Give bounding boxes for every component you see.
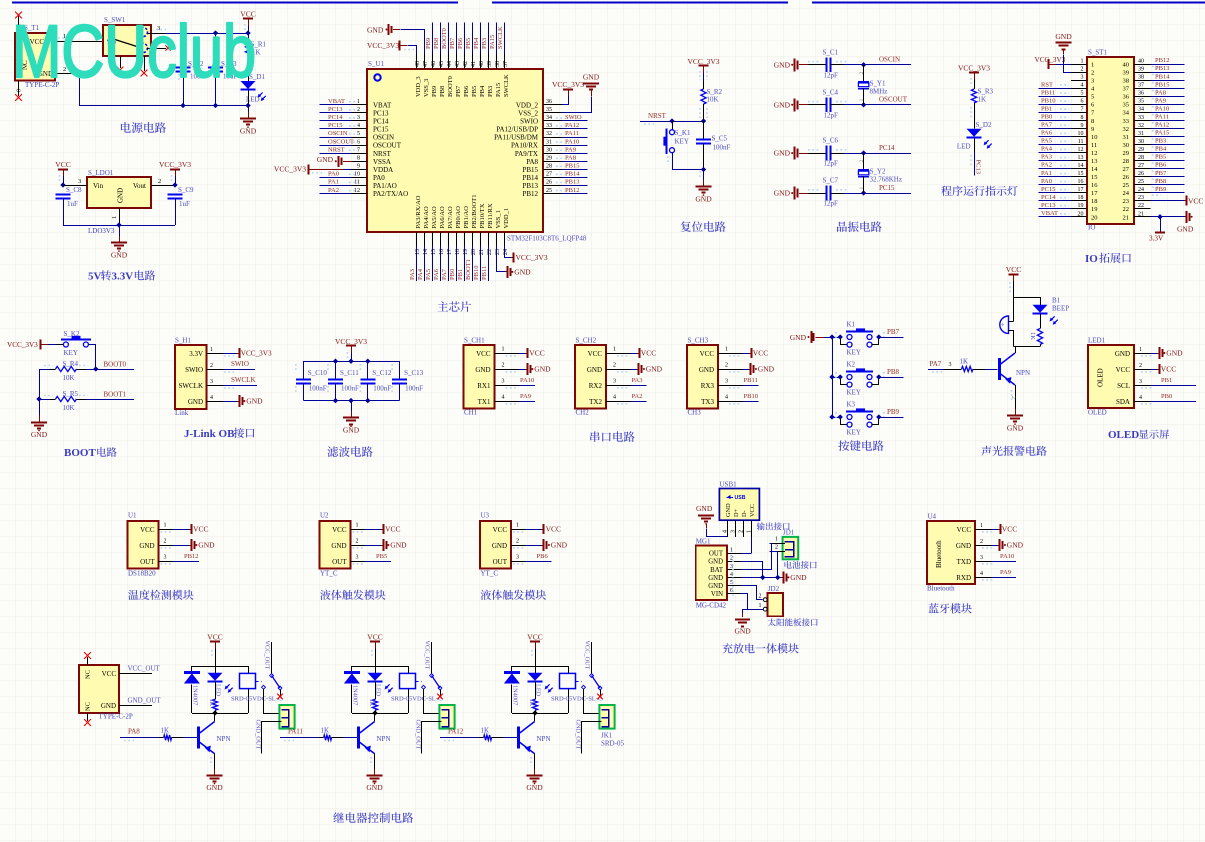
svg-text:3: 3 <box>357 115 360 121</box>
svg-text:PB11: PB11 <box>481 266 488 280</box>
svg-text:6: 6 <box>1081 99 1084 105</box>
svg-text:36: 36 <box>546 99 552 105</box>
svg-text:2: 2 <box>859 160 865 163</box>
MCU top pin 37 SWCLK <box>497 23 510 98</box>
resistor 1K relay3 <box>528 682 538 713</box>
ST1 left pin 18 net PC14 <box>1039 194 1098 205</box>
svg-text:13: 13 <box>1091 158 1098 165</box>
ground GND power circuit <box>240 106 257 136</box>
svg-text:GND: GND <box>699 366 714 374</box>
svg-text:PC14: PC14 <box>879 144 895 152</box>
MCU right pin 25 PB12 <box>522 187 587 198</box>
svg-text:SWCLK: SWCLK <box>231 376 256 384</box>
svg-text:1: 1 <box>859 187 865 190</box>
svg-text:VSS_2: VSS_2 <box>518 109 538 117</box>
MCU top pin 46 PB9 <box>425 23 438 98</box>
svg-text:3: 3 <box>613 379 616 385</box>
svg-text:100nF: 100nF <box>341 385 359 393</box>
relay switch relay1 <box>256 674 283 700</box>
capacitor S_C4 12pF <box>808 88 847 119</box>
filter bottom rail wire <box>303 398 399 403</box>
power port VCC U2 <box>365 524 401 534</box>
svg-text:3: 3 <box>516 555 519 561</box>
svg-text:12pF: 12pF <box>824 160 839 168</box>
svg-text:PC15: PC15 <box>328 122 342 129</box>
svg-text:VSS_3: VSS_3 <box>423 79 430 97</box>
svg-text:11: 11 <box>354 180 360 186</box>
svg-text:34: 34 <box>1138 107 1144 113</box>
svg-text:OUT: OUT <box>493 558 508 566</box>
svg-text:VCC: VCC <box>385 525 400 534</box>
ST1 right pin 38 net PB14 <box>1123 73 1185 84</box>
svg-text:PB12: PB12 <box>522 190 538 198</box>
svg-text:PA0: PA0 <box>328 171 339 178</box>
svg-text:1N4007: 1N4007 <box>191 685 198 705</box>
svg-text:GND: GND <box>514 268 531 277</box>
svg-text:PB7: PB7 <box>455 85 462 97</box>
svg-text:36: 36 <box>1138 91 1144 97</box>
header S_CH3 serial <box>687 337 743 417</box>
power port VCC_3V3 for LDO out <box>159 160 191 187</box>
capacitor S_C7 12pF <box>808 177 847 208</box>
MCU left pin 9 VDDA <box>352 164 394 174</box>
svg-text:VSSA: VSSA <box>373 158 391 166</box>
svg-text:1: 1 <box>747 530 753 533</box>
svg-text:PA2: PA2 <box>632 393 643 400</box>
ground GND at ST1 pin 21 <box>1151 211 1194 234</box>
svg-text:32: 32 <box>546 131 552 137</box>
svg-text:PB5: PB5 <box>465 38 472 49</box>
svg-text:GND: GND <box>790 573 807 582</box>
svg-text:PA1/AO: PA1/AO <box>373 182 397 190</box>
svg-text:VDD_1: VDD_1 <box>503 208 510 229</box>
svg-text:KEY: KEY <box>847 389 861 397</box>
svg-text:43: 43 <box>455 61 461 67</box>
ST1 left pin 13 net PA3 <box>1039 154 1098 165</box>
net label GND_OUT wire relay2 <box>414 720 441 754</box>
svg-text:1uF: 1uF <box>67 200 78 208</box>
svg-text:PA7: PA7 <box>1041 122 1053 129</box>
MCU right pin 33 PA12/USB/DP <box>496 122 587 133</box>
power port VCC_3V3 reset <box>687 57 719 81</box>
svg-text:PB4: PB4 <box>1155 146 1167 153</box>
svg-text:3: 3 <box>78 178 81 185</box>
net label PC15 <box>844 184 911 196</box>
svg-text:GND: GND <box>139 542 154 550</box>
net label PA8 wire and base resistor relay1 <box>120 727 197 741</box>
svg-text:23: 23 <box>1123 198 1130 205</box>
svg-text:1: 1 <box>164 523 167 529</box>
relay bottom rail wire relay2 <box>352 710 408 715</box>
svg-text:GND: GND <box>1055 32 1072 41</box>
svg-text:MG-CD42: MG-CD42 <box>696 602 727 610</box>
svg-text:S_C10: S_C10 <box>308 369 328 377</box>
svg-text:21: 21 <box>1123 214 1130 221</box>
ground GND S_CH2 <box>631 363 663 375</box>
svg-text:PB13: PB13 <box>1155 65 1169 72</box>
svg-text:PA11: PA11 <box>288 728 304 736</box>
svg-text:NRST: NRST <box>328 146 345 153</box>
svg-text:3.3V: 3.3V <box>189 350 203 358</box>
svg-text:GND: GND <box>774 149 791 158</box>
svg-text:KEY: KEY <box>675 138 689 146</box>
MCU left pin 5 OSCIN <box>320 130 395 141</box>
net label PB9 wire <box>879 408 904 418</box>
ST1 right pin 30 net PB3 <box>1123 138 1185 149</box>
svg-text:GND: GND <box>774 100 791 109</box>
svg-text:3: 3 <box>731 530 737 533</box>
svg-text:1: 1 <box>1139 347 1142 353</box>
wire LDO pin3 <box>63 185 87 187</box>
title run indicator <box>941 186 1017 196</box>
LED of alarm <box>1033 297 1058 325</box>
svg-text:PA12: PA12 <box>565 122 579 129</box>
svg-text:VIN: VIN <box>711 591 723 598</box>
ST1 right pin 32 net PA12 <box>1123 122 1185 133</box>
svg-text:IO: IO <box>1085 253 1098 265</box>
title bluetooth module <box>928 603 971 613</box>
svg-text:PB6: PB6 <box>1155 162 1167 169</box>
MCU top pin 48 VDD_3 <box>415 54 422 98</box>
svg-text:S_C8: S_C8 <box>66 186 82 194</box>
svg-text:27: 27 <box>546 172 552 178</box>
title IO expansion <box>1085 253 1131 265</box>
svg-text:20: 20 <box>1078 211 1084 217</box>
svg-text:17: 17 <box>1078 187 1084 193</box>
svg-text:6: 6 <box>357 139 360 145</box>
power port VCC S_CH1 <box>519 348 545 358</box>
svg-text:PB0: PB0 <box>1041 114 1052 121</box>
MCU right pin 30 PA9/TX <box>515 146 588 157</box>
capacitor S_C9 1uF <box>168 186 195 225</box>
svg-text:1: 1 <box>859 98 865 101</box>
svg-text:37: 37 <box>503 61 509 67</box>
svg-text:PB5: PB5 <box>1155 154 1166 161</box>
svg-text:GND: GND <box>774 60 791 69</box>
svg-text:S_C7: S_C7 <box>823 177 839 185</box>
LED S_D1 <box>241 73 266 106</box>
net label OSCOUT <box>844 96 911 108</box>
relay top rail wire relay2 <box>352 666 408 668</box>
svg-text:PA0: PA0 <box>1041 178 1052 185</box>
svg-text:GND: GND <box>734 627 751 636</box>
svg-text:3.3V: 3.3V <box>112 271 134 283</box>
title filter circuit <box>327 446 372 457</box>
svg-text:GND: GND <box>646 365 663 374</box>
connector USB1 USB-A <box>719 481 759 537</box>
svg-text:2: 2 <box>516 539 519 545</box>
svg-text:SWCLK: SWCLK <box>497 26 504 49</box>
svg-text:SCL: SCL <box>1117 382 1130 390</box>
MCU bottom pin 15 PA5/AO <box>425 206 438 281</box>
svg-text:PC13: PC13 <box>328 106 342 113</box>
svg-text:GND: GND <box>1166 349 1183 358</box>
svg-text:31: 31 <box>1123 134 1130 141</box>
connector JK screw terminal relay2 <box>439 705 454 729</box>
svg-text:PA3: PA3 <box>409 269 416 280</box>
svg-text:PA10: PA10 <box>520 377 534 384</box>
title charge module <box>722 643 798 653</box>
svg-text:12pF: 12pF <box>824 71 839 79</box>
svg-text:2: 2 <box>210 363 213 369</box>
svg-text:2: 2 <box>725 363 728 369</box>
svg-text:PA6: PA6 <box>433 268 440 280</box>
svg-text:1: 1 <box>356 523 359 529</box>
svg-text:33: 33 <box>1123 118 1130 125</box>
svg-text:GND: GND <box>116 188 124 203</box>
svg-text:3: 3 <box>1081 75 1084 81</box>
svg-text:CH1: CH1 <box>464 409 478 417</box>
svg-text:14: 14 <box>1078 163 1084 169</box>
svg-text:PA3: PA3 <box>632 377 643 384</box>
ground GND jlink pin4 <box>223 395 264 407</box>
emitter wire and ground GND relay1 <box>206 754 223 792</box>
svg-text:GND: GND <box>492 542 507 550</box>
svg-text:GND: GND <box>1177 225 1194 234</box>
svg-text:27: 27 <box>1123 166 1130 173</box>
capacitor S_C10 100nF <box>296 361 328 400</box>
relay top rail wire relay3 <box>512 666 568 668</box>
svg-text:MCUclub: MCUclub <box>12 10 256 93</box>
svg-text:VCC_3V3: VCC_3V3 <box>367 41 399 50</box>
svg-text:VCC: VCC <box>700 350 715 358</box>
module U4 Bluetooth <box>927 513 993 593</box>
ST1 right pin 40 net PB12 <box>1123 57 1185 68</box>
net label PB10 wire <box>743 393 759 402</box>
LED relay2 <box>368 666 393 697</box>
svg-text:1: 1 <box>730 548 733 554</box>
power port VCC U3 <box>526 524 562 534</box>
svg-text:PB12: PB12 <box>1155 57 1169 64</box>
svg-text:8: 8 <box>1081 115 1084 121</box>
svg-text:VCC_3V3: VCC_3V3 <box>241 350 272 358</box>
svg-text:34: 34 <box>546 115 552 121</box>
svg-text:4: 4 <box>502 395 505 401</box>
svg-text:1K: 1K <box>1029 332 1036 340</box>
svg-text:9: 9 <box>1091 126 1094 133</box>
svg-text:SRD-05VDC-SL-C: SRD-05VDC-SL-C <box>551 696 602 703</box>
svg-text:1K: 1K <box>528 699 535 707</box>
power port VCC relay3 <box>527 633 542 666</box>
svg-text:40: 40 <box>1123 62 1130 69</box>
capacitor S_C1 12pF <box>808 48 847 79</box>
svg-text:3: 3 <box>1139 379 1142 385</box>
svg-text:4: 4 <box>357 123 360 129</box>
title crystal circuit <box>837 221 882 232</box>
resistor 1K relay1 <box>208 682 218 713</box>
svg-text:PB1: PB1 <box>1161 377 1172 384</box>
header S_CH1 serial <box>464 337 520 417</box>
power port VCC_3V3 filter <box>335 337 367 361</box>
svg-text:GND: GND <box>708 559 723 566</box>
svg-text:K3: K3 <box>847 401 856 409</box>
crystal S_Y1 8MHz <box>858 65 887 105</box>
svg-text:VCC: VCC <box>1002 525 1017 534</box>
MCU left pin 1 VBAT <box>320 98 393 109</box>
svg-text:1: 1 <box>759 603 762 609</box>
svg-text:PB10: PB10 <box>473 266 480 280</box>
svg-text:PA8: PA8 <box>128 728 140 736</box>
MCU right pin 26 PB13 <box>522 179 587 190</box>
title OLED display <box>1108 429 1169 441</box>
svg-text:PB0: PB0 <box>1161 393 1172 400</box>
svg-text:PB1: PB1 <box>457 269 464 280</box>
svg-text:100nF: 100nF <box>713 144 731 152</box>
svg-text:K2: K2 <box>847 361 856 369</box>
svg-text:VCC: VCC <box>1116 366 1131 374</box>
ground GND for S_C7 <box>774 187 808 200</box>
resistor 1K alarm <box>1029 314 1042 347</box>
svg-text:PC13: PC13 <box>1041 202 1055 209</box>
resistor S_R2 10K <box>700 81 723 121</box>
push button K2 KEY <box>832 361 884 397</box>
svg-text:VCC: VCC <box>749 504 756 517</box>
power port VCC_3V3 run LED <box>958 64 990 86</box>
key bus wire <box>829 334 834 419</box>
svg-text:1: 1 <box>613 347 616 353</box>
ground GND U3 <box>526 539 568 551</box>
svg-text:PB7: PB7 <box>1155 170 1167 177</box>
svg-text:8: 8 <box>357 156 360 162</box>
svg-text:PB2/BOOT1: PB2/BOOT1 <box>471 195 478 229</box>
svg-text:PB13: PB13 <box>522 182 538 190</box>
ground GND at MCU pin 35 <box>562 73 600 113</box>
svg-text:PA9/TX: PA9/TX <box>515 150 538 158</box>
ground GND at ST1 pin 2 <box>1055 32 1072 73</box>
power port VCC_3V3 at ST1 pin 1 <box>1035 56 1072 69</box>
svg-text:OSCIN: OSCIN <box>373 134 394 142</box>
svg-text:VCC: VCC <box>367 633 382 642</box>
transistor NPN alarm <box>1000 353 1031 385</box>
svg-text:JK1: JK1 <box>601 732 613 740</box>
resistor S_R1 1K <box>245 33 266 81</box>
svg-text:STM32F103C8T6_LQFP48: STM32F103C8T6_LQFP48 <box>507 235 587 243</box>
svg-text:GND: GND <box>534 365 551 374</box>
svg-text:OLED: OLED <box>1088 409 1107 417</box>
svg-text:33: 33 <box>546 123 552 129</box>
svg-text:26: 26 <box>1123 174 1130 181</box>
svg-text:1: 1 <box>357 99 360 105</box>
power port VCC alarm <box>1006 265 1021 297</box>
svg-text:GND: GND <box>475 366 490 374</box>
svg-text:PB10/TX: PB10/TX <box>479 203 486 228</box>
svg-text:GND_OUT: GND_OUT <box>254 720 261 750</box>
svg-text:26: 26 <box>546 180 552 186</box>
svg-text:SRD-05VDC-SL-C: SRD-05VDC-SL-C <box>391 696 442 703</box>
svg-text:18: 18 <box>1091 198 1098 205</box>
header S_ST1 body <box>1087 49 1134 232</box>
relay switch relay3 <box>576 674 603 700</box>
svg-text:PA3: PA3 <box>1041 154 1052 161</box>
svg-text:VCC: VCC <box>546 525 561 534</box>
net label SWCLK wire <box>223 376 258 388</box>
relay top rail wire relay1 <box>192 666 248 668</box>
svg-text:PA9: PA9 <box>520 393 531 400</box>
MCU left pin 12 PA2/TX/AO <box>320 187 409 198</box>
svg-text:SWIO: SWIO <box>231 360 249 368</box>
title YT_C <box>320 590 385 600</box>
svg-text:33: 33 <box>1138 115 1144 121</box>
svg-text:VCC_OUT: VCC_OUT <box>263 641 270 670</box>
svg-text:3: 3 <box>356 555 359 561</box>
svg-text:12pF: 12pF <box>824 200 839 208</box>
MCU top pin 40 PB4 <box>473 23 486 98</box>
svg-text:27: 27 <box>1138 163 1144 169</box>
ground GND S_CH3 <box>743 363 775 375</box>
emitter wire and ground GND relay2 <box>366 754 383 792</box>
svg-text:PC15: PC15 <box>373 126 389 134</box>
ST1 right pin 31 net PA15 <box>1123 130 1185 141</box>
svg-text:3: 3 <box>164 555 167 561</box>
capacitor S_C6 12pF <box>808 137 847 168</box>
capacitor S_C3 10uF <box>208 33 238 106</box>
svg-text:PB8: PB8 <box>433 38 440 49</box>
svg-text:44: 44 <box>447 61 453 67</box>
ground GND for S_C4 <box>774 98 808 111</box>
svg-text:S_C4: S_C4 <box>823 88 839 96</box>
svg-text:S_U1: S_U1 <box>368 60 384 68</box>
title battery port <box>785 561 817 569</box>
svg-text:GND: GND <box>1007 424 1024 433</box>
svg-text:VCC: VCC <box>1161 365 1176 374</box>
svg-text:GND: GND <box>198 541 215 550</box>
connector TYPE-C-2P output <box>79 652 133 726</box>
svg-text:3: 3 <box>1091 78 1094 85</box>
svg-text:VCC: VCC <box>527 633 542 642</box>
svg-text:PB9: PB9 <box>425 38 432 49</box>
svg-text:PA1: PA1 <box>328 179 339 186</box>
svg-text:SWCLK: SWCLK <box>179 382 204 390</box>
svg-text:2: 2 <box>357 107 360 113</box>
ST1 right pin 24 net PB9 <box>1123 186 1185 197</box>
ground GND LDO <box>111 225 128 260</box>
ground GND at MCU pin 8 VSSA <box>317 155 352 167</box>
svg-text:1: 1 <box>516 523 519 529</box>
ST1 left pin 1 <box>1071 59 1094 69</box>
MCU left pin 7 NRST <box>320 146 392 157</box>
MCU bottom pin 13 PA3/RX/AO <box>409 195 422 281</box>
wire LDO bottom rail <box>63 222 175 227</box>
svg-text:K1: K1 <box>847 321 856 329</box>
svg-text:LED: LED <box>957 143 971 151</box>
svg-text:32: 32 <box>1123 126 1130 133</box>
svg-text:PB10: PB10 <box>1041 97 1055 104</box>
ST1 left pin 9 net PA7 <box>1039 122 1095 133</box>
power port VCC oled pin2 <box>1151 364 1177 374</box>
resistor S_R5 10K <box>39 390 88 412</box>
svg-text:PC14: PC14 <box>1041 194 1056 201</box>
resistor 1K relay2 <box>368 682 378 713</box>
header S_H1 J-Link <box>175 337 223 418</box>
net label PB1 wire <box>1151 377 1197 386</box>
ST1 left pin 4 net RST <box>1039 81 1096 92</box>
capacitor S_C2 100nF <box>176 33 209 106</box>
svg-text:PA4/AO: PA4/AO <box>423 206 430 228</box>
svg-text:28: 28 <box>1123 158 1130 165</box>
svg-text:46: 46 <box>431 61 437 67</box>
svg-text:38: 38 <box>1123 78 1130 85</box>
svg-text:31: 31 <box>546 139 552 145</box>
svg-text:GND: GND <box>708 575 723 582</box>
svg-text:3: 3 <box>502 379 505 385</box>
sheet border line <box>12 2 1205 4</box>
svg-text:RXD: RXD <box>956 574 971 582</box>
svg-text:S_CH2: S_CH2 <box>576 337 597 345</box>
svg-text:7: 7 <box>1081 107 1084 113</box>
svg-text:BOOT: BOOT <box>64 447 96 459</box>
svg-text:28: 28 <box>546 164 552 170</box>
svg-text:VDDA: VDDA <box>373 166 393 174</box>
